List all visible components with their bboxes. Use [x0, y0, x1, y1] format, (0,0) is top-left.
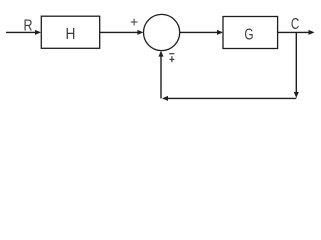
wire: feedback branch down from output node: [294, 32, 299, 98]
summing junction minus-plus sign (feedback input): [169, 54, 174, 63]
wire: H to summing junction: [100, 30, 144, 35]
wire: feedback bottom run (right to left): [162, 96, 296, 101]
svg-text:R: R: [23, 17, 32, 35]
svg-text:G: G: [244, 24, 253, 42]
svg-text:+: +: [130, 13, 138, 29]
wire: input R into block H: [6, 30, 41, 35]
svg-text:H: H: [66, 25, 76, 43]
summing junction: [144, 14, 180, 50]
wire: feedback up into summing junction: [159, 51, 164, 99]
block G: [223, 17, 278, 49]
svg-text:C: C: [291, 14, 299, 32]
block H: [41, 16, 99, 48]
wire: G output to C: [278, 30, 315, 35]
wire: summing junction to block G: [180, 30, 223, 35]
